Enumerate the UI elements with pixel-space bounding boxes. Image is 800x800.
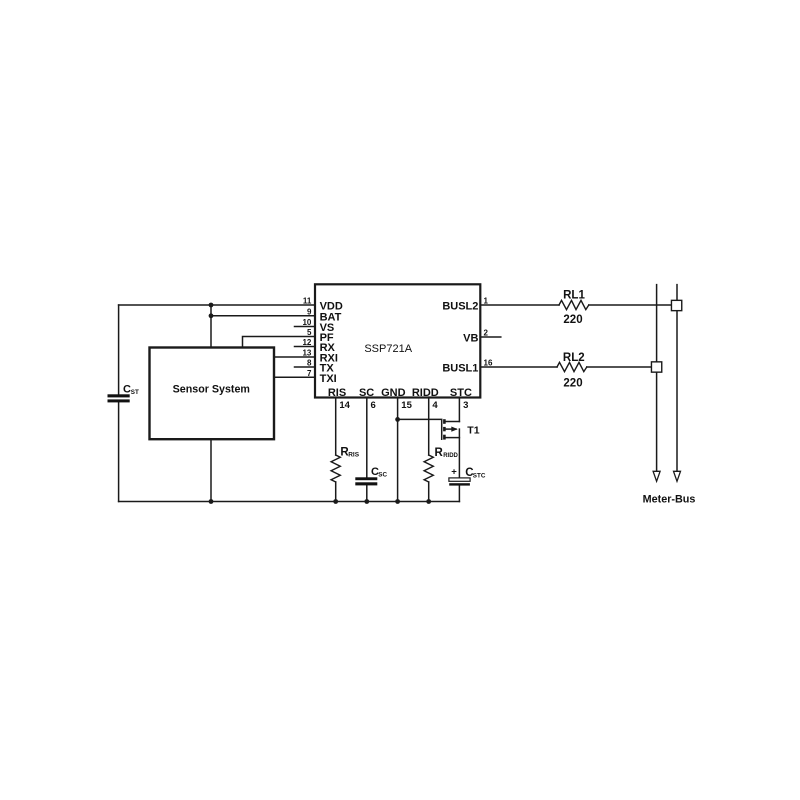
svg-text:2: 2 bbox=[484, 329, 489, 338]
svg-text:BUSL2: BUSL2 bbox=[442, 301, 478, 313]
svg-text:GND: GND bbox=[381, 387, 406, 399]
svg-text:4: 4 bbox=[432, 400, 438, 411]
svg-text:ST: ST bbox=[131, 389, 139, 396]
svg-text:BUSL1: BUSL1 bbox=[442, 363, 478, 375]
svg-text:RIS: RIS bbox=[348, 452, 360, 459]
svg-text:+: + bbox=[451, 466, 457, 477]
svg-text:8: 8 bbox=[307, 359, 312, 368]
svg-text:220: 220 bbox=[563, 378, 582, 390]
svg-text:RIDD: RIDD bbox=[412, 387, 439, 399]
svg-text:RL1: RL1 bbox=[563, 289, 585, 301]
svg-text:SSP721A: SSP721A bbox=[364, 343, 412, 355]
svg-text:9: 9 bbox=[307, 307, 312, 316]
svg-text:16: 16 bbox=[484, 359, 493, 368]
svg-text:11: 11 bbox=[303, 297, 312, 306]
svg-text:10: 10 bbox=[302, 318, 311, 327]
svg-text:Meter-Bus: Meter-Bus bbox=[643, 493, 696, 505]
svg-text:3: 3 bbox=[463, 400, 468, 411]
svg-text:14: 14 bbox=[339, 400, 350, 411]
svg-text:Sensor System: Sensor System bbox=[173, 383, 250, 395]
svg-text:12: 12 bbox=[302, 338, 311, 347]
svg-text:SC: SC bbox=[378, 471, 387, 478]
svg-text:STC: STC bbox=[450, 387, 472, 399]
svg-text:SC: SC bbox=[359, 387, 374, 399]
svg-text:T1: T1 bbox=[467, 425, 479, 437]
svg-text:STC: STC bbox=[473, 473, 486, 480]
svg-text:13: 13 bbox=[302, 349, 311, 358]
svg-text:15: 15 bbox=[401, 400, 412, 411]
svg-text:220: 220 bbox=[563, 314, 582, 326]
svg-text:RIDD: RIDD bbox=[443, 453, 458, 459]
svg-text:7: 7 bbox=[307, 369, 312, 378]
svg-text:5: 5 bbox=[307, 328, 312, 337]
svg-text:RIS: RIS bbox=[328, 387, 346, 399]
svg-text:VB: VB bbox=[463, 332, 478, 344]
svg-text:C: C bbox=[123, 384, 131, 396]
svg-text:R: R bbox=[435, 447, 444, 459]
svg-text:1: 1 bbox=[484, 297, 489, 306]
svg-text:RL2: RL2 bbox=[563, 352, 585, 364]
svg-text:6: 6 bbox=[371, 400, 376, 411]
svg-text:TXI: TXI bbox=[320, 373, 337, 385]
